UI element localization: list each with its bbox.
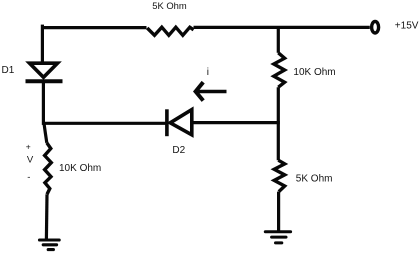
svg-text:10K Ohm: 10K Ohm [293, 67, 335, 78]
svg-text:V: V [27, 155, 34, 166]
wire left vertical upper (top wire down to D1) [41, 25, 44, 62]
wire right vertical middle (10K to middle junction and down to 5K) [277, 87, 280, 160]
ground (right): three bars [265, 232, 290, 243]
diode D1 (cathode-down, triangle outline) [26, 63, 63, 81]
resistor 10K Ohm (right, vertical zigzag) [274, 53, 285, 87]
svg-text:+: + [26, 142, 31, 152]
wire left vertical middle (D1 to middle-wire junction) [42, 81, 45, 125]
resistor 5K Ohm (top, horizontal zigzag) [147, 27, 193, 35]
current arrow i (pointing left) [196, 82, 227, 100]
svg-text:10K Ohm: 10K Ohm [59, 163, 101, 174]
wire middle horizontal left segment (junction to D2 bar) [43, 122, 165, 125]
wire top horizontal left segment [41, 26, 146, 29]
ground (left): three bars [40, 240, 60, 250]
svg-text:D2: D2 [172, 145, 185, 156]
resistor 10K Ohm (left, vertical zigzag) [45, 143, 52, 195]
wire right vertical upper (top wire to 10K resistor) [277, 26, 280, 53]
wire middle horizontal right segment (D2 to right vertical) [192, 121, 280, 124]
terminal +15V (open oval) [372, 21, 379, 33]
svg-text:+15V: +15V [395, 20, 419, 31]
wire top horizontal right segment [194, 26, 370, 29]
diode D2 (pointing left: bar + triangle outline) [167, 109, 192, 136]
svg-text:5K Ohm: 5K Ohm [296, 174, 333, 185]
wire left vertical lower (junction down to 10K resistor) [44, 123, 47, 143]
svg-text:-: - [27, 172, 30, 183]
svg-text:D1: D1 [2, 65, 15, 76]
wire right vertical lower (5K to ground) [277, 192, 280, 231]
svg-text:5K Ohm: 5K Ohm [152, 0, 187, 11]
svg-text:i: i [207, 67, 209, 78]
wire left vertical to ground [45, 194, 49, 239]
resistor 5K Ohm (right, vertical zigzag) [274, 160, 285, 191]
